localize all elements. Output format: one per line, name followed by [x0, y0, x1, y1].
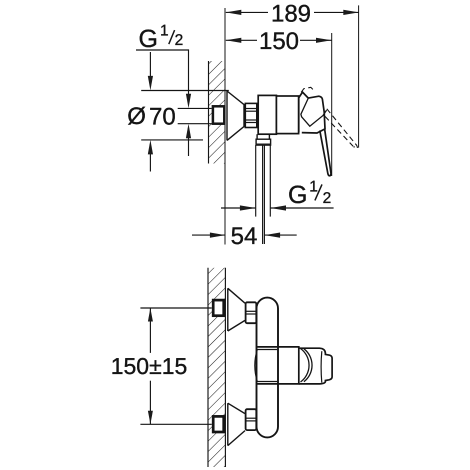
thread lower arrow (up) on G1/2 leader — [186, 124, 191, 156]
escutcheon cone (side view) — [227, 91, 244, 140]
lower nipple square (plan) — [213, 416, 224, 432]
nipple square (wall connection, side view) — [213, 106, 224, 123]
dimension 150+-15 vertical line with arrows — [148, 308, 153, 424]
svg-text:70: 70 — [149, 104, 176, 131]
handle raised position (dashed) — [301, 87, 357, 147]
svg-text:189: 189 — [271, 0, 311, 27]
dimension 150+-15 bottom extent line — [140, 423, 211, 425]
svg-text:2: 2 — [323, 190, 332, 207]
O70 bottom arrow (up) — [148, 140, 153, 172]
cap edge (side view) — [298, 97, 300, 132]
thread leader lines from O70 text to nipple — [178, 107, 212, 109]
extension line 189 right — [358, 5, 360, 147]
G1/2 bottom left arrow — [221, 205, 255, 210]
O70 label text — [127, 103, 175, 131]
cover plate left arc (plan) — [255, 350, 257, 381]
O70 top arrow (down) — [148, 52, 153, 90]
upper escutcheon cone (plan) — [228, 288, 245, 331]
dimension 54 right arrow — [265, 233, 297, 238]
O70 bottom extent line — [141, 139, 203, 141]
upper hex nut (plan) — [246, 302, 257, 323]
handle knob (plan) — [299, 348, 332, 384]
label G 1/2 top — [139, 22, 184, 53]
extension line 150 right — [331, 33, 333, 176]
handle lever (side view, solid) — [299, 92, 331, 176]
svg-text:150±15: 150±15 — [111, 353, 188, 379]
wall (hatched strip, side view) — [209, 61, 226, 164]
faucet body capsule (plan) — [257, 298, 279, 438]
svg-text:G: G — [288, 181, 307, 209]
svg-text:150: 150 — [259, 28, 299, 55]
outlet neck below body — [257, 134, 269, 139]
G1/2 leader underline and arrow to thread — [136, 50, 191, 108]
cartridge cover plate (plan) — [257, 347, 299, 384]
hex nut (side view) — [245, 103, 256, 127]
faucet body block B (side view) — [276, 96, 298, 134]
svg-text:Ø: Ø — [127, 103, 146, 130]
faucet body block A (side view) — [258, 95, 276, 134]
svg-text:G: G — [139, 25, 158, 53]
lower hex nut (plan) — [246, 409, 257, 430]
dimension 150+-15 top extent line — [140, 307, 211, 309]
hose pipe (side view) — [256, 145, 271, 217]
wall face extension line — [224, 8, 226, 61]
label G 1/2 bottom — [288, 179, 331, 209]
G1/2 bottom leader line with arrow to pipe — [271, 205, 334, 210]
wall (hatched strip, plan view) — [208, 268, 225, 467]
svg-text:54: 54 — [231, 223, 258, 250]
dimension 189 line — [226, 10, 359, 15]
svg-text:1: 1 — [160, 22, 169, 39]
cover plate inner edges (plan) — [257, 349, 278, 351]
dome arcs (plan) — [301, 349, 313, 383]
hose center lines — [263, 145, 265, 244]
hose nut below body — [256, 139, 271, 145]
dimension 54 left arrow — [192, 233, 225, 238]
O70 top extent line — [141, 90, 229, 92]
lower escutcheon cone (plan) — [228, 403, 245, 445]
svg-text:1: 1 — [309, 179, 318, 196]
svg-text:2: 2 — [175, 32, 184, 49]
dimension 150 line — [226, 38, 332, 43]
upper nipple square (plan) — [213, 300, 224, 316]
